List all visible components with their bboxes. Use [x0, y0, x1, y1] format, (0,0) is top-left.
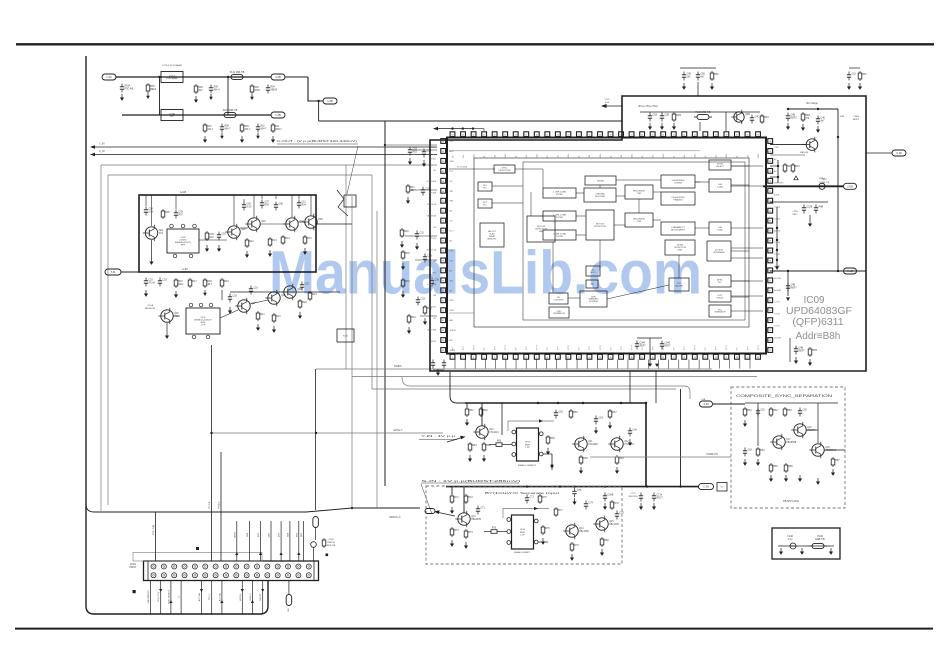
svg-text:DETECT/SW: DETECT/SW	[499, 170, 511, 172]
capacitor C035	[786, 283, 797, 292]
wire q13-to-r70	[484, 531, 489, 533]
node N010	[787, 108, 789, 110]
svg-text:R69: R69	[619, 458, 624, 460]
resistor R025	[401, 250, 410, 260]
ground GND032	[401, 263, 405, 270]
wire comp-sync-dashed-box	[731, 387, 845, 508]
svg-text:VDD: VDD	[450, 141, 455, 143]
svg-text:YNR: YNR	[637, 193, 642, 195]
wire cn-up-211	[211, 345, 213, 561]
svg-text:54: 54	[557, 134, 559, 136]
label LB051	[287, 532, 289, 537]
wire blk-chain4	[173, 315, 180, 317]
node N020	[837, 270, 839, 272]
svg-text:R08-7: R08-7	[275, 129, 282, 131]
svg-text:SYY: SYY	[558, 345, 560, 350]
wire ic-stub9	[695, 181, 700, 183]
svg-text:R12: R12	[249, 241, 254, 243]
svg-text:Q10: Q10	[489, 429, 494, 431]
ic IC006	[543, 188, 576, 198]
svg-text:DETECTION: DETECTION	[594, 226, 606, 228]
label LB048	[258, 532, 260, 537]
svg-text:C4B: C4B	[791, 115, 796, 117]
wire pin-stub-177	[770, 176, 778, 178]
wire ic-w25	[731, 280, 749, 282]
pin P020	[534, 540, 538, 544]
svg-text:GNDB: GNDB	[450, 350, 456, 352]
svg-text:17: 17	[620, 357, 622, 359]
svg-text:C74: C74	[589, 503, 594, 505]
svg-text:C83: C83	[748, 450, 753, 452]
label LB053	[301, 532, 303, 537]
wire top-rule	[16, 43, 934, 45]
svg-text:B4DE: B4DE	[774, 195, 780, 197]
capacitor C008	[217, 232, 227, 241]
capacitor C009	[242, 202, 252, 211]
wire runA-runB-link2	[227, 77, 229, 115]
svg-text:C10: C10	[222, 234, 227, 236]
svg-text:SC: SC	[720, 487, 723, 489]
wire gray-frame-1v	[100, 165, 102, 511]
node N004	[158, 76, 160, 78]
wire blk-chain6	[250, 300, 268, 304]
wire ic-w3	[492, 185, 523, 187]
label LB011	[145, 308, 156, 310]
wire blk-chain2	[260, 223, 286, 225]
svg-text:50: 50	[599, 134, 601, 136]
wire below-wire	[637, 337, 662, 339]
wire blk-v7	[291, 195, 293, 217]
svg-text:69: 69	[442, 191, 444, 193]
node N027	[604, 485, 606, 487]
capacitor C036	[794, 346, 805, 355]
wire left-vertical-bus	[86, 56, 268, 614]
wire ic-w7	[576, 234, 586, 236]
svg-text:R64: R64	[486, 445, 491, 447]
svg-text:15: 15	[599, 357, 601, 359]
node N007	[451, 127, 453, 129]
wire ic-inner-gray2	[449, 312, 474, 314]
svg-text:44: 44	[769, 261, 771, 263]
resistor R057	[769, 407, 778, 417]
svg-text:SYY: SYY	[684, 345, 686, 350]
resistor R042	[608, 409, 617, 419]
connector CN003	[717, 483, 727, 492]
svg-text:47: 47	[769, 231, 771, 233]
connector CN-C06	[892, 150, 906, 156]
ground GND070	[756, 459, 760, 466]
ground GND019	[203, 290, 207, 296]
label LB022	[819, 182, 830, 184]
wire y-bus-r	[637, 402, 646, 404]
label LB039	[817, 535, 823, 538]
ic IC027	[580, 291, 607, 307]
resistor R056	[743, 407, 752, 417]
svg-text:R33: R33	[405, 281, 410, 283]
transistor Q012	[473, 424, 499, 440]
pin P018	[507, 541, 511, 545]
svg-text:56: 56	[536, 134, 538, 136]
node N011	[817, 108, 819, 110]
svg-text:41: 41	[769, 290, 771, 292]
ground GND075	[816, 478, 820, 485]
svg-text:59: 59	[504, 134, 506, 136]
svg-text:TESTB: TESTB	[450, 330, 457, 332]
capacitor C005	[256, 124, 267, 133]
wire vert-778	[777, 160, 779, 183]
svg-text:PL09 2SB-7/B: PL09 2SB-7/B	[223, 110, 238, 112]
svg-text:4B-7: 4B-7	[207, 284, 213, 286]
svg-text:KBL1266: KBL1266	[579, 531, 589, 533]
node sq-node3	[326, 554, 329, 557]
resistor R038	[482, 442, 491, 452]
wire v-810	[809, 215, 811, 220]
wire block-out1	[316, 223, 352, 225]
pin P002	[181, 224, 185, 228]
wire yc-top-bus	[446, 486, 699, 488]
capacitor C054	[743, 448, 753, 457]
resistor R022	[400, 228, 409, 238]
svg-text:C4B: C4B	[791, 285, 796, 287]
svg-text:R65: R65	[550, 438, 555, 440]
svg-text:51: 51	[769, 191, 771, 193]
ground GND006	[203, 136, 207, 143]
wire ic-stub6	[731, 280, 763, 282]
ground GND074	[798, 475, 802, 482]
ground GND072	[784, 475, 788, 482]
svg-text:R61: R61	[469, 410, 474, 412]
svg-text:21: 21	[662, 357, 664, 359]
resistor R030	[858, 71, 867, 81]
ground GND054	[468, 455, 472, 462]
wire t01-link	[121, 271, 139, 273]
ic IC014	[661, 192, 695, 205]
svg-text:C046: C046	[665, 343, 671, 345]
svg-text:SYYY: SYYY	[505, 344, 507, 350]
resistor R053	[610, 500, 619, 510]
pin P010	[206, 335, 210, 339]
svg-text:C81: C81	[761, 410, 766, 412]
wire sbus-drop1	[451, 487, 453, 495]
resistor R049	[489, 528, 499, 534]
ground GND017	[144, 290, 148, 297]
wire lp-stub2	[415, 259, 437, 261]
svg-text:25: 25	[704, 357, 706, 359]
svg-text:BLK2B1: BLK2B1	[774, 278, 782, 280]
transistor Q011	[804, 137, 818, 153]
wire pin-drops	[455, 360, 750, 369]
svg-text:C_IN: C_IN	[99, 150, 105, 153]
svg-text:R10: R10	[261, 126, 266, 128]
ground GND001	[120, 94, 124, 101]
svg-text:ManualsLib.com: ManualsLib.com	[269, 239, 702, 307]
svg-text:81: 81	[442, 310, 444, 312]
wire gray-frame-2h	[108, 174, 372, 176]
label LB065	[250, 593, 252, 600]
svg-text:C08: C08	[279, 204, 284, 206]
svg-text:SYY: SYY	[589, 345, 591, 350]
label LB060	[179, 595, 181, 599]
svg-text:VCL71B0A: VCL71B0A	[426, 180, 437, 183]
svg-text:1-3A: 1-3A	[106, 75, 112, 79]
svg-text:INTERFACE: INTERFACE	[713, 251, 725, 254]
wire vert-below1	[789, 338, 791, 362]
label LB050	[279, 532, 281, 537]
label LB010	[147, 304, 153, 307]
svg-text:C20: C20	[305, 284, 310, 286]
ground GND058	[608, 422, 612, 429]
label IC09-right-pin-names	[774, 147, 785, 339]
ground GND034	[648, 123, 652, 130]
svg-text:SYY: SYY	[652, 345, 654, 350]
svg-text:FILTER: FILTER	[556, 236, 563, 238]
node N022	[557, 402, 559, 404]
wire comp-v1	[757, 403, 759, 446]
svg-text:R09: R09	[244, 126, 249, 128]
capacitor C051	[615, 511, 625, 520]
svg-text:16: 16	[610, 357, 612, 359]
wire comp-top-wire	[745, 402, 838, 404]
svg-text:2-0B: 2-0B	[847, 269, 853, 273]
svg-text:20: 20	[652, 357, 654, 359]
transistor Q006	[158, 308, 179, 324]
label LB026	[631, 493, 637, 495]
svg-text:SYY: SYY	[463, 345, 465, 350]
resistor R003	[250, 84, 260, 94]
ground arr-788	[786, 297, 790, 301]
node N016	[776, 239, 778, 241]
resistor R019	[298, 299, 307, 309]
wire below-drop	[649, 338, 651, 360]
svg-text:R09: R09	[214, 87, 219, 89]
svg-text:KTA: KTA	[174, 315, 179, 318]
wire ic-w1	[515, 168, 543, 170]
capacitor C002	[209, 85, 220, 94]
ic IC010	[586, 210, 614, 240]
ic IC003	[478, 199, 492, 208]
svg-text:(REC7B1): (REC7B1)	[628, 496, 637, 498]
svg-text:L.PF: L.PF	[520, 534, 525, 536]
svg-text:BWF: BWF	[525, 444, 531, 446]
svg-text:Y_IN: Y_IN	[99, 143, 105, 146]
svg-text:DECODER: DECODER	[595, 196, 606, 198]
resistor R035	[465, 407, 474, 417]
wire cn-up-303	[303, 521, 305, 561]
svg-text:R60: R60	[497, 441, 502, 443]
node N023	[582, 402, 584, 404]
ic IC012	[625, 213, 653, 227]
svg-text:DECO: DECO	[590, 272, 596, 274]
svg-text:62: 62	[473, 134, 475, 136]
resistor R024	[407, 314, 416, 324]
svg-text:KTA1266: KTA1266	[588, 443, 598, 446]
label LB014	[604, 99, 610, 101]
svg-text:KBHAL(C-4568B-P2: KBHAL(C-4568B-P2	[518, 464, 537, 467]
pin P016	[507, 518, 511, 522]
svg-text:Q4B: Q4B	[745, 114, 750, 116]
ground GND043	[816, 126, 820, 133]
node N001	[351, 507, 353, 509]
resistor R034	[808, 347, 817, 357]
svg-text:ALA2B1: ALA2B1	[774, 289, 782, 292]
svg-text:GENERATOR: GENERATOR	[714, 311, 726, 314]
wire ic-w14	[614, 224, 625, 226]
resistor R027	[672, 112, 681, 122]
wire bp-wire	[433, 369, 444, 371]
svg-text:71: 71	[442, 211, 444, 213]
ground GND035	[660, 123, 664, 130]
diode D001	[794, 176, 798, 180]
transistor Q007	[235, 298, 256, 314]
ic IC030	[527, 216, 555, 242]
connector CN002	[337, 329, 354, 342]
ground GND003	[194, 96, 198, 103]
svg-text:48: 48	[769, 221, 771, 223]
ground GND023	[272, 326, 276, 333]
svg-text:TEST0B: TEST0B	[428, 307, 436, 309]
connector CN-1-3B	[271, 112, 285, 118]
ground GND012	[205, 245, 209, 252]
inductor L003	[694, 112, 712, 120]
transistor Q003	[245, 216, 266, 232]
svg-text:56: 56	[769, 141, 771, 143]
svg-text:COMPOSITE_SYNC_SEPARATION: COMPOSITE_SYNC_SEPARATION	[736, 394, 833, 398]
label LB005	[394, 429, 403, 432]
svg-text:35: 35	[769, 350, 771, 352]
connector CN01	[144, 561, 319, 581]
wire ic-w20	[607, 285, 669, 299]
svg-text:R10: R10	[209, 237, 214, 239]
node N003	[315, 432, 317, 434]
pin CN01-pins	[151, 564, 311, 578]
svg-text:C.06: C.06	[896, 151, 902, 155]
capacitor C055	[790, 543, 796, 549]
svg-text:R62: R62	[483, 410, 488, 412]
label LB017	[840, 116, 845, 118]
wire ic-inner-gray1	[449, 150, 700, 152]
svg-text:434-7: 434-7	[261, 129, 268, 131]
wire lp-stub4	[410, 189, 437, 191]
svg-text:72: 72	[442, 221, 444, 223]
wire blk-v9	[151, 195, 153, 226]
svg-text:SYYY: SYYY	[537, 344, 539, 350]
svg-text:51: 51	[589, 134, 591, 136]
svg-text:FILTER: FILTER	[556, 217, 563, 219]
wire ic-stub1	[731, 165, 763, 167]
transistor Q018	[791, 422, 816, 438]
wire ic-w21	[552, 242, 554, 293]
wire comp-h1	[806, 429, 818, 431]
svg-text:R70: R70	[492, 528, 497, 530]
wire blk-v8	[310, 195, 312, 215]
resistor R005	[240, 123, 251, 133]
resistor R007	[161, 209, 170, 219]
label LB058	[158, 592, 160, 602]
wire cn-dn-252	[252, 581, 254, 615]
wire ic-w22	[731, 165, 749, 167]
wire blk-v1	[243, 199, 245, 202]
wire ybus-drop2	[481, 403, 483, 426]
transistor Q017	[593, 516, 619, 532]
resistor R021	[406, 184, 415, 194]
pin IC09-top-pins	[450, 132, 760, 137]
svg-text:R07: R07	[179, 215, 184, 217]
wire top-pin-jumper-drop	[483, 129, 485, 131]
svg-text:40: 40	[769, 300, 771, 302]
svg-text:53: 53	[567, 134, 569, 136]
node sq-552	[551, 465, 554, 468]
resistor R006	[271, 123, 282, 133]
wire top-inner-wire	[640, 111, 760, 113]
ground GND037	[682, 83, 686, 90]
ground GND018	[174, 291, 178, 298]
ic IC008	[543, 230, 576, 240]
svg-text:B1-7: B1-7	[450, 231, 454, 233]
capacitor C038	[660, 341, 671, 350]
svg-text:UPB10BA: UPB10BA	[427, 328, 437, 331]
node N005	[227, 76, 229, 78]
capacitor C016	[249, 286, 259, 295]
svg-text:R84: R84	[760, 450, 765, 452]
label LB043	[153, 525, 155, 535]
wire gray-frame-1h	[101, 164, 437, 166]
svg-text:40: 40	[704, 134, 706, 136]
svg-text:R05: R05	[150, 86, 155, 88]
svg-text:C141: C141	[604, 99, 610, 101]
resistor R029	[710, 71, 719, 81]
node N024	[620, 402, 622, 404]
connector inline-822	[819, 183, 825, 189]
resistor R017	[256, 311, 265, 321]
ground GND049	[572, 498, 576, 505]
svg-text:VB7 SL2A: VB7 SL2A	[427, 203, 437, 206]
wire ic-w8	[616, 179, 661, 181]
svg-text:R09: R09	[254, 87, 259, 89]
ic IC020	[707, 241, 731, 261]
label IC09-left-pin-names	[426, 147, 437, 343]
ground GND066	[570, 554, 574, 561]
svg-text:4-2V: 4-2V	[247, 207, 252, 209]
wire blk-v4	[298, 195, 300, 199]
capacitor C033	[802, 205, 813, 214]
connector CN-C09	[699, 484, 714, 490]
ground GND078	[829, 548, 833, 555]
svg-text:REF7: REF7	[799, 351, 806, 353]
svg-text:46: 46	[641, 134, 643, 136]
svg-text:R32: R32	[404, 231, 409, 233]
wire gray-vert-352	[351, 196, 353, 508]
svg-text:R82: R82	[773, 410, 778, 412]
svg-text:REC7: REC7	[657, 498, 664, 500]
node N031	[559, 485, 561, 487]
svg-text:R79: R79	[574, 545, 579, 547]
label LB025	[792, 214, 798, 216]
svg-text:VL1B4: VL1B4	[430, 238, 437, 240]
capacitor C050	[584, 501, 594, 510]
wire c-out-underline	[277, 143, 358, 145]
label LB046	[234, 531, 236, 538]
svg-text:Q03: Q03	[261, 221, 266, 223]
wire drop-630	[629, 371, 631, 403]
svg-text:24D2B4: 24D2B4	[774, 337, 782, 339]
ground GND057	[594, 427, 598, 434]
svg-text:R03A: R03A	[125, 85, 131, 88]
svg-text:1723-F PL02-BEAM: 1723-F PL02-BEAM	[162, 64, 182, 67]
wire ic-inner-vcl	[449, 168, 495, 170]
svg-text:5: 5	[494, 357, 495, 359]
svg-text:STORAGE: STORAGE	[589, 300, 599, 303]
ground GND027	[406, 197, 410, 204]
